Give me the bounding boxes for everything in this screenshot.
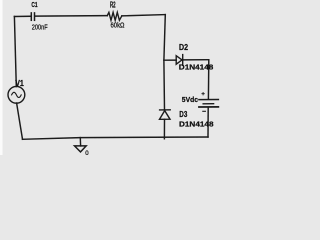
diode D3 xyxy=(160,110,171,120)
battery V2 5Vdc xyxy=(199,100,219,108)
svg-text:D1N4148: D1N4148 xyxy=(179,119,214,128)
wire battery bottom xyxy=(207,108,209,137)
wire C1 to R2 xyxy=(35,15,107,18)
svg-text:C1: C1 xyxy=(31,0,37,9)
wire left vertical (corner to V1) xyxy=(14,17,16,87)
wire battery top xyxy=(207,60,209,99)
wire D3 to bottom xyxy=(163,119,165,139)
wire D2 branch right xyxy=(183,59,209,61)
resistor R2 xyxy=(107,12,122,20)
diode D2 xyxy=(176,55,183,66)
battery minus sign xyxy=(203,110,206,112)
wire middle vertical (top corner down to D3) xyxy=(164,15,165,110)
svg-text:D2: D2 xyxy=(179,43,188,52)
ground stub xyxy=(79,138,81,146)
svg-text:200nF: 200nF xyxy=(32,23,48,32)
svg-text:R2: R2 xyxy=(110,0,116,9)
capacitor C1 xyxy=(31,13,34,20)
battery plus sign xyxy=(202,93,204,95)
wire R2 to top-right corner xyxy=(122,15,166,16)
wire V1 to bottom-left corner xyxy=(17,103,23,139)
wire D2 branch left xyxy=(164,59,176,61)
ground symbol 0 xyxy=(75,146,87,152)
svg-text:D3: D3 xyxy=(179,110,187,119)
source V1 xyxy=(8,86,25,103)
svg-text:5Vdc: 5Vdc xyxy=(182,97,198,104)
svg-text:D1N4148: D1N4148 xyxy=(179,63,214,72)
wire bottom (right corner to left corner) xyxy=(23,137,209,139)
svg-text:V1: V1 xyxy=(15,78,24,88)
svg-text:0: 0 xyxy=(85,150,89,155)
wire top-left (corner to C1) xyxy=(14,15,30,17)
svg-text:60kΩ: 60kΩ xyxy=(111,22,125,29)
